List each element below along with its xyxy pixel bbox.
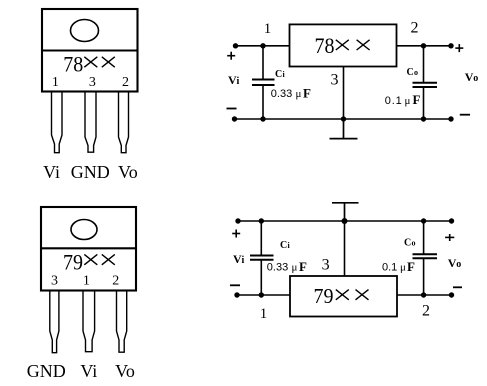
label Vo output bbox=[465, 70, 479, 84]
node Ci top junction bbox=[260, 43, 265, 48]
node Co top junction bbox=[421, 218, 426, 223]
78XX package mounting hole bbox=[71, 20, 99, 42]
svg-text:0.33: 0.33 bbox=[267, 262, 288, 274]
node output - terminal bbox=[449, 292, 454, 297]
svg-text:i: i bbox=[237, 76, 240, 87]
regulator U1 78XX box bbox=[290, 24, 397, 66]
node output - terminal bbox=[448, 116, 453, 121]
svg-text:μ: μ bbox=[400, 262, 406, 274]
svg-text:i: i bbox=[283, 70, 286, 79]
capacitor C4 (Co) bbox=[413, 221, 438, 295]
79XX pin lead 3 bbox=[50, 291, 59, 353]
svg-text:Vi: Vi bbox=[80, 361, 97, 381]
svg-text:Vi: Vi bbox=[43, 162, 60, 182]
wire bottom input bbox=[237, 294, 290, 296]
svg-text:F: F bbox=[407, 259, 415, 274]
value 0.1uF bbox=[385, 92, 421, 107]
svg-text:F: F bbox=[299, 259, 307, 274]
79XX package mounting hole bbox=[71, 220, 97, 240]
label Ci bbox=[275, 69, 286, 80]
wire output top bbox=[397, 45, 452, 47]
label Vi input bbox=[233, 252, 245, 266]
svg-text:μ: μ bbox=[405, 95, 411, 107]
svg-text:C: C bbox=[280, 240, 287, 251]
value 0.33uF bbox=[267, 259, 307, 274]
node output + terminal bbox=[449, 218, 454, 223]
svg-text:1: 1 bbox=[260, 306, 268, 322]
79XX pin lead 2 bbox=[117, 291, 127, 353]
value 0.33uF bbox=[271, 85, 311, 100]
78XX TO-220 package body bbox=[42, 9, 138, 92]
ground bbox=[332, 203, 359, 221]
svg-text:3: 3 bbox=[51, 274, 58, 289]
U1 label 78XX bbox=[315, 33, 370, 58]
svg-text:o: o bbox=[414, 68, 418, 77]
output plus sign bbox=[455, 44, 463, 52]
capacitor C1 (Ci) bbox=[252, 46, 275, 119]
svg-text:C: C bbox=[407, 67, 414, 78]
78XX pin lead 2 bbox=[119, 92, 129, 153]
label Vo output bbox=[448, 256, 462, 270]
78XX pin lead 1 bbox=[52, 92, 63, 153]
svg-text:i: i bbox=[242, 255, 245, 266]
svg-text:3: 3 bbox=[322, 257, 330, 274]
78XX pin lead 3 bbox=[85, 92, 96, 153]
label Co bbox=[407, 67, 419, 78]
regulator U2 79XX box bbox=[290, 276, 397, 317]
U2 pin 3 wire bbox=[344, 221, 346, 276]
svg-text:1: 1 bbox=[52, 75, 59, 90]
svg-text:0.1: 0.1 bbox=[385, 95, 403, 107]
svg-text:78: 78 bbox=[63, 51, 83, 76]
svg-text:0.1: 0.1 bbox=[382, 262, 397, 274]
U2 label 79XX bbox=[314, 284, 369, 308]
svg-text:78: 78 bbox=[315, 33, 335, 58]
node Co top junction bbox=[421, 43, 426, 48]
svg-text:F: F bbox=[303, 85, 311, 100]
node ground junction bbox=[342, 218, 348, 224]
node output + terminal bbox=[448, 43, 453, 48]
78XX package label 78XX bbox=[63, 51, 115, 76]
svg-text:Vo: Vo bbox=[115, 361, 135, 381]
node Co bottom junction bbox=[421, 292, 426, 297]
svg-text:1: 1 bbox=[264, 21, 272, 37]
node input + terminal bbox=[233, 43, 238, 48]
svg-text:2: 2 bbox=[422, 302, 430, 319]
input minus sign bbox=[230, 284, 240, 286]
wire bottom output bbox=[397, 294, 452, 296]
input plus sign bbox=[227, 52, 235, 60]
node input + terminal bbox=[235, 218, 240, 223]
79XX package label 79XX bbox=[63, 249, 115, 274]
svg-text:79: 79 bbox=[314, 284, 334, 308]
capacitor C2 (Co) bbox=[413, 46, 438, 119]
79XX pin lead 1 bbox=[83, 291, 95, 352]
svg-text:2: 2 bbox=[411, 20, 419, 37]
U1 pin 3 wire bbox=[343, 67, 345, 120]
svg-text:o: o bbox=[456, 259, 461, 270]
node Ci bottom junction bbox=[260, 116, 265, 121]
node Ci bottom junction bbox=[259, 292, 264, 297]
label Ci bbox=[280, 240, 291, 251]
svg-text:C: C bbox=[275, 69, 282, 80]
node input - terminal bbox=[234, 292, 239, 297]
svg-text:1: 1 bbox=[83, 274, 90, 289]
output plus sign bbox=[445, 234, 454, 241]
svg-text:o: o bbox=[473, 73, 478, 84]
svg-text:C: C bbox=[404, 238, 411, 249]
input plus sign bbox=[232, 230, 240, 238]
capacitor C3 (Ci) bbox=[250, 221, 274, 295]
node ground junction bbox=[341, 116, 346, 121]
node Ci top junction bbox=[259, 218, 264, 223]
svg-text:Vo: Vo bbox=[118, 162, 138, 182]
svg-text:2: 2 bbox=[112, 274, 119, 289]
label Vi input bbox=[228, 73, 240, 87]
svg-text:3: 3 bbox=[331, 71, 339, 88]
ground bbox=[330, 119, 358, 139]
label Co bbox=[404, 238, 416, 249]
svg-text:0.33: 0.33 bbox=[271, 88, 292, 100]
svg-text:2: 2 bbox=[122, 75, 129, 90]
output minus sign bbox=[460, 114, 470, 116]
svg-text:3: 3 bbox=[89, 75, 96, 90]
input minus sign bbox=[227, 108, 237, 110]
node Co bottom junction bbox=[421, 116, 426, 121]
svg-text:GND: GND bbox=[27, 361, 66, 381]
79XX package body bbox=[41, 207, 136, 291]
value 0.1uF bbox=[382, 259, 415, 274]
svg-text:79: 79 bbox=[63, 249, 83, 274]
svg-text:μ: μ bbox=[292, 262, 298, 274]
svg-text:F: F bbox=[413, 92, 421, 107]
svg-text:μ: μ bbox=[296, 88, 302, 100]
output minus sign bbox=[453, 286, 462, 288]
node input - terminal bbox=[232, 116, 237, 121]
wire bottom rail bbox=[234, 118, 451, 120]
svg-text:o: o bbox=[412, 239, 416, 248]
svg-text:i: i bbox=[288, 241, 291, 250]
wire input top bbox=[236, 45, 290, 47]
svg-text:GND: GND bbox=[71, 162, 110, 182]
wire top rail bbox=[238, 220, 452, 222]
